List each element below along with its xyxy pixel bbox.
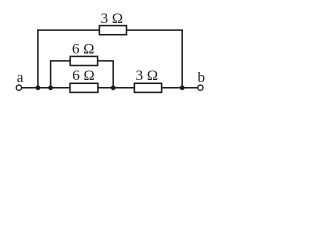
wire: top branch horizontal right segment (126, 29, 183, 31)
svg-text:a: a (17, 70, 24, 86)
svg-text:6 Ω: 6 Ω (72, 41, 94, 57)
wire: top branch right vertical (181, 30, 183, 88)
wire: top branch horizontal left segment (37, 29, 99, 31)
svg-text:6 Ω: 6 Ω (72, 68, 94, 84)
wire: middle branch right vertical (112, 61, 114, 88)
wire: main line between 6 ohm and 3 ohm resistors (97, 87, 134, 89)
wire: middle branch horizontal left segment (50, 60, 71, 62)
svg-text:3 Ω: 3 Ω (101, 11, 123, 27)
wire: middle branch horizontal right segment (98, 60, 114, 62)
junction node: middle branch right tap on main line (111, 85, 116, 90)
svg-text:3 Ω: 3 Ω (136, 68, 158, 84)
junction node: top branch right tap on main line (180, 85, 185, 90)
resistor R4 3 ohm (main line) (134, 83, 161, 92)
resistor R1 3 ohm (top branch) (99, 26, 126, 35)
junction node: top branch tap on main line (36, 85, 41, 90)
wire: main line from 3 ohm resistor to terminal b (161, 87, 197, 89)
terminal a (open circle) (16, 85, 21, 90)
junction node: middle branch left tap on main line (48, 85, 53, 90)
resistor R2 6 ohm (middle parallel branch) (70, 56, 97, 65)
wire: middle branch left vertical (50, 61, 52, 88)
resistor R3 6 ohm (main line) (70, 83, 98, 92)
wire: main line from terminal a to first resistor (21, 87, 70, 89)
wire: top branch left vertical (37, 30, 39, 88)
svg-text:b: b (198, 70, 206, 86)
terminal b (open circle) (198, 85, 203, 90)
